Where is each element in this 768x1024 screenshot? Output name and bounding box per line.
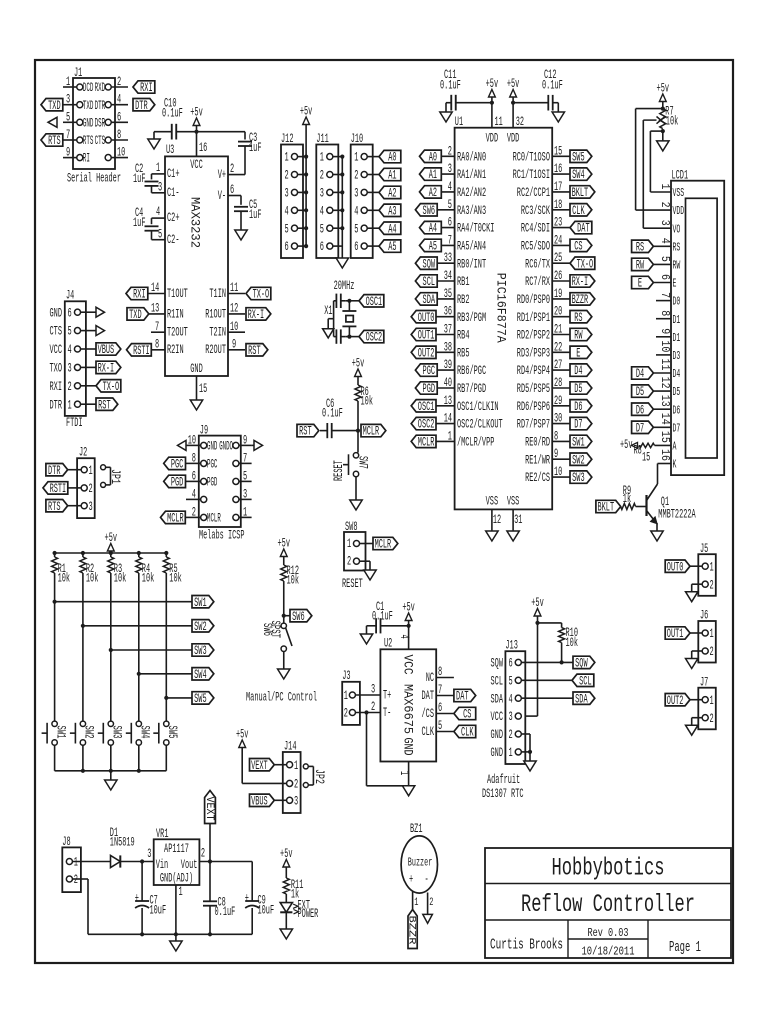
- svg-text:J6: J6: [700, 609, 708, 623]
- tag RST at J4: [96, 398, 118, 412]
- svg-text:OUT2: OUT2: [667, 694, 684, 708]
- svg-text:Page 1: Page 1: [669, 940, 701, 956]
- tag MCLR at J9: [161, 511, 186, 525]
- svg-text:OSC1/CLKIN: OSC1/CLKIN: [457, 400, 499, 414]
- svg-text:0.1uF: 0.1uF: [322, 407, 343, 421]
- capacitor C6 0.1uF: [320, 397, 358, 438]
- svg-text:D3: D3: [673, 350, 681, 363]
- U1 pin 2 RA0/AN0: [436, 144, 486, 164]
- tag D5 at U1 right: [570, 382, 592, 396]
- svg-text:8: 8: [192, 451, 196, 465]
- svg-text:MCLR: MCLR: [167, 512, 184, 526]
- svg-text:17: 17: [554, 180, 562, 194]
- svg-text:E: E: [673, 278, 677, 291]
- svg-text:10uF: 10uF: [150, 904, 167, 918]
- svg-text:D0: D0: [673, 296, 681, 309]
- svg-text:VEXT: VEXT: [251, 759, 268, 773]
- tag SCL at J13: [572, 674, 594, 688]
- tag SW5: [192, 692, 214, 706]
- U1 pin 4 RA2/AN2: [436, 180, 486, 200]
- svg-text:SW6: SW6: [423, 204, 436, 218]
- IC U2 MAX6675 body: [380, 637, 436, 762]
- U1 VDD pin 11 wire: [490, 101, 503, 129]
- tag OSC2 at U1 left: [411, 417, 436, 431]
- LCD1 pin 5 RW: [658, 256, 681, 273]
- svg-text:CS: CS: [574, 240, 582, 254]
- svg-text:20MHz: 20MHz: [334, 279, 355, 293]
- connector J14: [274, 740, 301, 814]
- tag A4 at J10: [379, 222, 401, 236]
- svg-text:JP1: JP1: [108, 469, 122, 484]
- svg-text:4: 4: [509, 692, 513, 706]
- svg-text:16: 16: [554, 162, 562, 176]
- tag PGD at U1 left: [415, 382, 437, 396]
- svg-text:Curtis Brooks: Curtis Brooks: [490, 938, 563, 954]
- svg-text:14: 14: [444, 412, 452, 426]
- tag RTS at J2: [46, 500, 68, 514]
- potentiometer R7 10k: [643, 105, 678, 134]
- U3 VCC pin 16 wire: [194, 130, 207, 157]
- svg-text:1uF: 1uF: [249, 208, 262, 222]
- svg-text:D4: D4: [636, 367, 644, 381]
- connector J13: [491, 639, 526, 765]
- svg-text:2: 2: [74, 873, 78, 887]
- svg-text:VDD: VDD: [486, 132, 499, 146]
- LCD1 pin 8 D1: [658, 310, 681, 327]
- svg-text:D5: D5: [574, 382, 582, 396]
- U1 VSS pin 12 wire: [492, 509, 501, 531]
- switch SW1: [42, 721, 68, 745]
- svg-text:BZZR: BZZR: [572, 293, 589, 307]
- svg-text:2: 2: [68, 380, 72, 394]
- title rev: [588, 927, 629, 940]
- ground at J6: [686, 659, 698, 669]
- diode D1 1N5819: [72, 826, 153, 868]
- resistor R11 1k: [283, 878, 303, 902]
- +5v at U1 pin11: [486, 77, 499, 103]
- svg-text:DAT: DAT: [456, 690, 469, 704]
- svg-text:2: 2: [658, 202, 671, 208]
- tag RS at U1 right: [570, 311, 592, 325]
- svg-text:J3: J3: [342, 669, 350, 683]
- svg-text:CLK: CLK: [422, 725, 435, 739]
- svg-text:10k: 10k: [566, 636, 579, 650]
- resistor R1 10k: [52, 553, 71, 586]
- U2 right stubs: [436, 665, 454, 733]
- svg-text:VSS: VSS: [486, 495, 499, 509]
- LCD1 pin 13 D6: [658, 395, 681, 418]
- wire R2 column: [81, 573, 85, 721]
- svg-text:9: 9: [232, 338, 236, 352]
- svg-text:10k: 10k: [58, 572, 71, 586]
- svg-text:RA5/AN4: RA5/AN4: [457, 240, 486, 254]
- svg-text:10: 10: [188, 433, 196, 447]
- svg-text:18: 18: [554, 198, 562, 212]
- tag D7 at U1 right: [570, 417, 592, 431]
- ground at C1: [360, 626, 372, 644]
- svg-text:12: 12: [493, 513, 501, 527]
- svg-text:SQW: SQW: [575, 657, 588, 671]
- U1 pin 23 RC4/SDI: [521, 216, 570, 236]
- wire J13 pin2 to pin1 gnd: [521, 734, 532, 761]
- capacitor C2: [133, 161, 165, 195]
- svg-text:8: 8: [658, 310, 671, 316]
- buzzer BZ1: [401, 822, 437, 914]
- svg-text:5: 5: [658, 256, 671, 262]
- wire J3 pin1 to T+: [355, 683, 380, 697]
- svg-text:Manual/PC Control: Manual/PC Control: [246, 691, 317, 705]
- tag RSTI at J2: [43, 482, 68, 496]
- ground at R7: [657, 141, 669, 151]
- svg-text:OSC1: OSC1: [366, 295, 383, 309]
- svg-text:Vin: Vin: [156, 858, 169, 872]
- svg-text:26: 26: [554, 269, 562, 283]
- svg-text:A5: A5: [429, 240, 437, 254]
- svg-text:6: 6: [230, 183, 234, 197]
- svg-text:2: 2: [192, 505, 196, 519]
- svg-text:4: 4: [285, 204, 289, 218]
- svg-text:CLK: CLK: [572, 204, 585, 218]
- svg-text:1: 1: [74, 856, 78, 870]
- svg-text:RD2/PSP2: RD2/PSP2: [517, 329, 550, 343]
- title page: [669, 940, 701, 956]
- svg-text:SW3: SW3: [110, 726, 124, 739]
- wire R4 column: [137, 573, 141, 721]
- tag BZZR vertical at BZ1: [405, 910, 417, 949]
- jumper JP1: [101, 465, 122, 488]
- resistor R9 1k: [621, 484, 647, 510]
- wire +5v to R10: [538, 623, 562, 628]
- svg-text:PGD: PGD: [171, 476, 184, 490]
- svg-text:C1-: C1-: [167, 186, 180, 200]
- svg-text:1: 1: [66, 75, 70, 89]
- svg-text:4: 4: [320, 204, 324, 218]
- ground arrow at BZ1 pin2: [423, 914, 433, 923]
- tag SW6 at U1 left: [415, 204, 437, 218]
- svg-text:1: 1: [509, 746, 513, 760]
- gnd arrow at J4 pin5: [96, 326, 105, 336]
- svg-text:RE1/WR: RE1/WR: [525, 453, 550, 467]
- svg-text:RB5: RB5: [457, 346, 470, 360]
- tag RST at C6: [297, 424, 319, 438]
- svg-text:FTDI: FTDI: [66, 416, 83, 430]
- ground at C10: [148, 132, 160, 149]
- svg-text:X1: X1: [324, 304, 332, 318]
- svg-text:RB7/PGD: RB7/PGD: [457, 382, 486, 396]
- wire J13 pin6 to SQW tag: [521, 661, 573, 663]
- +5v at U2: [402, 601, 415, 626]
- svg-text:-: -: [425, 873, 429, 887]
- svg-text:10/18/2011: 10/18/2011: [582, 946, 635, 959]
- svg-text:2: 2: [371, 700, 375, 714]
- svg-text:RA1/AN1: RA1/AN1: [457, 168, 486, 182]
- tag SW6: [284, 610, 312, 624]
- svg-text:2: 2: [320, 169, 324, 183]
- svg-text:BZZR: BZZR: [405, 916, 417, 946]
- svg-text:RC7/RX: RC7/RX: [525, 275, 550, 289]
- svg-text:GND: GND: [190, 362, 203, 376]
- tag OSC1 at U1 left: [411, 400, 436, 414]
- svg-text:TXD: TXD: [129, 308, 142, 322]
- U1 pin 25 RC6/TX: [525, 251, 570, 271]
- svg-text:0.1uF: 0.1uF: [372, 610, 393, 624]
- svg-text:RST: RST: [98, 398, 111, 412]
- svg-text:A0: A0: [388, 151, 396, 165]
- ground at LED: [280, 929, 292, 939]
- svg-text:BZ1: BZ1: [410, 822, 423, 836]
- tag OUT0 at J5: [665, 560, 702, 574]
- wire gnd rail stem: [175, 934, 177, 941]
- U1 pin 7 RA5/AN4: [436, 233, 486, 253]
- svg-text:GND(ADJ): GND(ADJ): [160, 872, 193, 886]
- wire J8 pin2 to gnd rail: [72, 879, 88, 934]
- svg-text:GNDO: GNDO: [219, 440, 233, 454]
- LCD1 pin 1 VSS: [658, 184, 684, 201]
- svg-text:R2IN: R2IN: [167, 343, 184, 357]
- svg-text:10k: 10k: [666, 115, 679, 129]
- svg-text:J14: J14: [284, 740, 297, 754]
- tag PGC at J9: [164, 457, 186, 471]
- svg-text:RESET: RESET: [332, 460, 346, 481]
- label DS1307 RTC: [482, 787, 524, 801]
- tag VEXT at J14: [250, 759, 275, 773]
- tag OUT1 at J6: [665, 627, 702, 641]
- svg-text:R1IN: R1IN: [167, 307, 184, 321]
- svg-text:T-: T-: [383, 706, 391, 720]
- connector J3: [342, 669, 360, 725]
- svg-text:R8: R8: [634, 444, 642, 458]
- ground at SW7: [350, 500, 362, 510]
- op-amp U3 MAX3232 body: [165, 143, 228, 376]
- svg-text:DAT: DAT: [577, 222, 590, 236]
- capacitor C1 0.1uF: [367, 600, 409, 633]
- svg-text:A4: A4: [388, 222, 396, 236]
- svg-text:CLK: CLK: [461, 726, 474, 740]
- connector J6: [698, 609, 716, 663]
- U1 pin 6 RA4/T0CKI: [436, 216, 494, 236]
- tag TXD at J1: [41, 99, 63, 113]
- tag OUT1 at U1 left: [411, 328, 436, 342]
- svg-text:RST: RST: [299, 425, 312, 439]
- ground at C12: [552, 112, 564, 122]
- svg-text:28: 28: [554, 376, 562, 390]
- svg-text:11: 11: [230, 281, 238, 295]
- connector SW8: [344, 520, 373, 571]
- svg-text:11: 11: [658, 359, 671, 371]
- tag A3 at J10: [379, 204, 401, 218]
- svg-text:5: 5: [448, 198, 452, 212]
- ground at C11: [440, 112, 452, 122]
- svg-text:TX-O: TX-O: [103, 380, 120, 394]
- U1 pin 18 RC3/SCK: [521, 198, 570, 218]
- tag MCLR at SW8: [373, 537, 398, 551]
- svg-text:VSS: VSS: [673, 187, 685, 200]
- svg-text:RXI: RXI: [133, 288, 146, 302]
- tag TX-O at U3: [246, 287, 271, 301]
- svg-text:T2OUT: T2OUT: [167, 326, 188, 340]
- svg-text:GND: GND: [401, 738, 415, 756]
- connector J8: [62, 835, 81, 892]
- svg-text:SCL: SCL: [423, 275, 436, 289]
- svg-text:21: 21: [554, 323, 562, 337]
- tag MCLR at reset node: [361, 424, 386, 438]
- svg-text:TXO: TXO: [50, 362, 63, 376]
- svg-text:R1OUT: R1OUT: [205, 307, 226, 321]
- wire SW1 to rail: [54, 745, 56, 771]
- wire R7 bottom to LCD VSS: [650, 131, 671, 192]
- svg-text:5: 5: [285, 222, 289, 236]
- svg-text:SW2: SW2: [572, 453, 585, 467]
- svg-text:3: 3: [658, 220, 671, 226]
- switch SW6 SPST: [260, 621, 292, 652]
- display LCD1 body: [671, 169, 724, 476]
- svg-text:1k: 1k: [623, 492, 631, 506]
- svg-text:2: 2: [448, 144, 452, 158]
- svg-text:37: 37: [444, 323, 452, 337]
- svg-text:J10: J10: [351, 132, 364, 146]
- svg-text:1: 1: [710, 560, 714, 574]
- wire SW4 to rail: [138, 745, 140, 771]
- svg-text:RD4/PSP4: RD4/PSP4: [517, 364, 550, 378]
- svg-text:+: +: [135, 892, 139, 906]
- svg-text:SQW: SQW: [491, 657, 504, 671]
- svg-text:1uF: 1uF: [133, 172, 146, 186]
- tag DTR at J1: [133, 99, 155, 113]
- svg-text:TX-O: TX-O: [577, 257, 594, 271]
- svg-text:RW: RW: [636, 259, 645, 273]
- connector J5: [698, 542, 716, 596]
- tag TXD at U3: [127, 308, 149, 322]
- svg-text:RB4: RB4: [457, 329, 470, 343]
- svg-text:RB2: RB2: [457, 293, 470, 307]
- svg-text:E: E: [638, 277, 642, 291]
- svg-text:SCL: SCL: [579, 674, 592, 688]
- svg-text:K: K: [673, 459, 677, 472]
- U1 pin 14 OSC2/CLKOUT: [436, 412, 503, 432]
- wire SW3 to rail: [110, 745, 112, 771]
- svg-text:RXI: RXI: [50, 380, 63, 394]
- svg-text:VCC: VCC: [491, 710, 504, 724]
- resistor R3 10k: [108, 553, 127, 586]
- svg-text:D6: D6: [673, 404, 681, 417]
- svg-text:MCLR: MCLR: [207, 512, 221, 526]
- tag DAT at U1 right: [570, 221, 592, 235]
- tag A1 at U1 left: [420, 168, 442, 182]
- U1 pin 35 RB2: [436, 287, 470, 307]
- svg-text:3: 3: [294, 794, 298, 808]
- svg-text:RS: RS: [574, 311, 582, 325]
- U1 pin 10 RE2/CS: [525, 465, 570, 485]
- svg-text:SW6: SW6: [292, 610, 305, 624]
- svg-text:0.1uF: 0.1uF: [440, 79, 461, 93]
- svg-text:C1+: C1+: [167, 167, 180, 181]
- wire J6 pin2 to ground: [692, 651, 703, 659]
- switch SW5: [153, 721, 179, 745]
- svg-text:J1: J1: [74, 66, 82, 80]
- svg-text:6: 6: [117, 110, 121, 124]
- svg-text:6: 6: [658, 274, 671, 280]
- svg-text:MAX3232: MAX3232: [188, 197, 202, 248]
- svg-text:OUT2: OUT2: [418, 346, 435, 360]
- resistor R4 10k: [136, 553, 155, 586]
- svg-text:1: 1: [89, 464, 93, 478]
- svg-text:24: 24: [554, 233, 562, 247]
- svg-text:V-: V-: [218, 189, 226, 203]
- wire J5 pin2 to ground: [692, 584, 703, 592]
- svg-text:JP2: JP2: [312, 769, 326, 784]
- tag OSC1 at X1: [349, 295, 383, 309]
- wire R6 to MCLR node: [356, 401, 360, 433]
- svg-text:VCC: VCC: [50, 343, 63, 357]
- tag SCL at U1 left: [415, 275, 437, 289]
- svg-text:5: 5: [68, 325, 72, 339]
- switch SW4: [126, 721, 152, 745]
- tag BKLT at R9: [596, 500, 621, 514]
- svg-text:39: 39: [444, 358, 452, 372]
- svg-text:OSC2/CLKOUT: OSC2/CLKOUT: [457, 418, 503, 432]
- svg-text:25: 25: [554, 251, 562, 265]
- wire T- to ground run: [367, 713, 409, 786]
- svg-text:RC5/SDO: RC5/SDO: [521, 240, 550, 254]
- svg-text:8: 8: [117, 128, 121, 142]
- svg-text:RC2/CCP1: RC2/CCP1: [517, 186, 550, 200]
- ground VSS31: [507, 531, 519, 541]
- svg-text:1uF: 1uF: [133, 216, 146, 230]
- svg-text:TXD: TXD: [48, 99, 61, 113]
- ground at J11: [336, 258, 348, 268]
- svg-text:RC4/SDI: RC4/SDI: [521, 222, 550, 236]
- svg-text:SW4: SW4: [572, 168, 585, 182]
- +5v at R6: [352, 357, 365, 386]
- svg-text:31: 31: [514, 513, 522, 527]
- U1 pin 28 RD5/PSP5: [517, 376, 570, 396]
- label FTDI: [66, 416, 83, 430]
- wire J12 bus: [304, 155, 308, 249]
- svg-text:10k: 10k: [86, 572, 99, 586]
- tag E at U1 right: [570, 346, 592, 360]
- ground at U2: [402, 786, 414, 796]
- svg-text:DAT: DAT: [422, 689, 435, 703]
- svg-text:11: 11: [495, 115, 503, 129]
- svg-text:1: 1: [344, 689, 348, 703]
- transistor Q1 MMBT2222A: [647, 484, 696, 524]
- svg-text:SW2: SW2: [82, 726, 96, 739]
- ground U3: [190, 400, 202, 410]
- svg-text:SDA: SDA: [423, 293, 436, 307]
- svg-text:SW7: SW7: [356, 456, 370, 469]
- svg-text:RESET: RESET: [342, 577, 363, 591]
- svg-text:A: A: [673, 441, 677, 454]
- tag VBUS at J14: [250, 794, 275, 808]
- svg-text:SW4: SW4: [194, 668, 207, 682]
- label Serial Header: [67, 172, 121, 186]
- svg-text:2: 2: [89, 482, 93, 496]
- svg-text:BKLT: BKLT: [572, 186, 589, 200]
- tag PGC at U1 left: [415, 364, 437, 378]
- svg-text:SW1: SW1: [194, 596, 207, 610]
- resistor R12 10k: [281, 564, 299, 588]
- svg-text:1: 1: [285, 151, 289, 165]
- svg-text:/CS: /CS: [422, 707, 435, 721]
- tag A0 at J10: [379, 150, 401, 164]
- svg-text:A2: A2: [429, 186, 437, 200]
- svg-text:2: 2: [509, 728, 513, 742]
- wire VCC column J13: [525, 623, 537, 716]
- ground at C5: [235, 230, 247, 240]
- svg-text:PGD: PGD: [423, 382, 436, 396]
- svg-text:T1IN: T1IN: [209, 287, 226, 301]
- svg-text:8: 8: [438, 665, 442, 679]
